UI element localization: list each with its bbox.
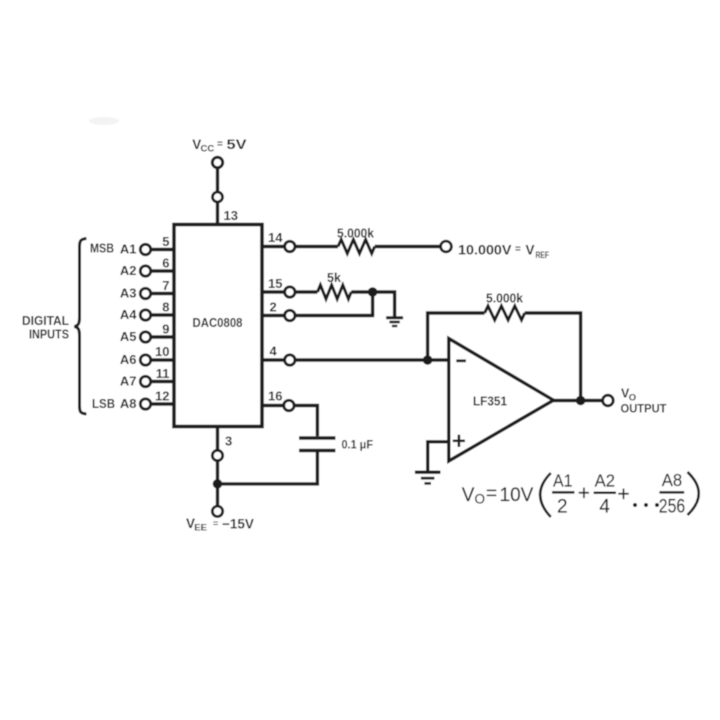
op-amp label LF351 bbox=[473, 394, 507, 409]
svg-text:MSB: MSB bbox=[90, 242, 114, 256]
label VEE = -15V bbox=[186, 516, 254, 534]
svg-text:10.000V: 10.000V bbox=[458, 243, 512, 258]
svg-text:REF: REF bbox=[536, 250, 550, 261]
wire junction down to pin 2 wire bbox=[371, 292, 374, 316]
svg-text:2: 2 bbox=[270, 300, 277, 315]
ground G2 bbox=[415, 472, 441, 483]
svg-text:DIGITAL: DIGITAL bbox=[22, 314, 69, 328]
svg-text:A8: A8 bbox=[662, 470, 682, 490]
faint scan smudge bbox=[89, 117, 119, 125]
wire junction to ground stub bbox=[373, 292, 395, 317]
svg-text:11: 11 bbox=[156, 366, 170, 381]
via circle on VCC wire bbox=[213, 192, 223, 202]
svg-text:A7: A7 bbox=[120, 374, 137, 389]
wire junction to VEE terminal bbox=[216, 484, 219, 506]
resistor R3 5.000k feedback bbox=[485, 292, 525, 321]
svg-text:A1: A1 bbox=[553, 471, 573, 491]
wire via to VEE junction bbox=[216, 461, 219, 484]
svg-text:10: 10 bbox=[155, 344, 169, 359]
input A7 (pin 11) bbox=[120, 366, 174, 389]
wire R2 to junction bbox=[351, 290, 372, 293]
svg-text:A4: A4 bbox=[120, 307, 137, 322]
input A6 (pin 10) bbox=[120, 344, 174, 367]
svg-text:O: O bbox=[629, 393, 636, 404]
svg-text:CC: CC bbox=[201, 144, 215, 155]
label OUTPUT bbox=[621, 404, 667, 416]
non-inverting input ground wire bbox=[428, 442, 449, 471]
svg-text:5V: 5V bbox=[227, 137, 247, 152]
svg-text:A5: A5 bbox=[120, 329, 137, 344]
svg-text:V: V bbox=[462, 485, 475, 506]
label VO bbox=[621, 387, 636, 404]
input A2 (pin 6) bbox=[120, 256, 174, 279]
resistor R1 5.000k bbox=[337, 227, 375, 254]
svg-text:15: 15 bbox=[268, 276, 282, 291]
svg-text:INPUTS: INPUTS bbox=[29, 328, 69, 342]
svg-text:DAC0808: DAC0808 bbox=[193, 315, 243, 330]
pin 16 lead bbox=[262, 389, 317, 437]
wire capacitor bottom to VEE junction bbox=[218, 451, 318, 484]
capacitor C1 plates bbox=[299, 438, 336, 451]
svg-text:3: 3 bbox=[225, 434, 232, 449]
pin 15 lead bbox=[262, 276, 318, 297]
svg-text:7: 7 bbox=[162, 278, 169, 293]
junction node pin15/pin2/ground bbox=[368, 287, 378, 297]
pin 4 lead bbox=[262, 344, 428, 366]
feedback wire to output bbox=[525, 313, 581, 401]
svg-text:2: 2 bbox=[557, 497, 568, 518]
svg-text:4: 4 bbox=[599, 497, 610, 518]
svg-text:A1: A1 bbox=[120, 242, 137, 257]
input A3 (pin 7) bbox=[120, 278, 174, 301]
svg-text:9: 9 bbox=[162, 322, 169, 337]
terminal VCC bbox=[212, 157, 222, 167]
svg-text:5.000k: 5.000k bbox=[337, 227, 374, 241]
svg-text:V: V bbox=[526, 243, 535, 258]
svg-text:+: + bbox=[578, 482, 590, 505]
VEE junction node bbox=[213, 479, 223, 489]
svg-text:14: 14 bbox=[268, 230, 283, 245]
op-amp minus input symbol bbox=[456, 359, 466, 362]
svg-text:8: 8 bbox=[162, 300, 169, 315]
svg-text:EE: EE bbox=[194, 523, 207, 534]
wire op-amp output bbox=[554, 399, 603, 402]
svg-text:=: = bbox=[217, 139, 223, 150]
svg-text:10V: 10V bbox=[500, 485, 534, 506]
svg-text:+: + bbox=[617, 483, 629, 506]
input A5 (pin 9) bbox=[120, 322, 174, 345]
label LSB bbox=[92, 397, 115, 411]
svg-text:16: 16 bbox=[268, 389, 282, 404]
label DIGITAL INPUTS bbox=[22, 314, 69, 342]
op-amp plus input symbol bbox=[453, 435, 465, 447]
svg-text:LF351: LF351 bbox=[473, 394, 507, 409]
svg-text:12: 12 bbox=[155, 389, 169, 404]
output junction node bbox=[576, 396, 586, 406]
power label VCC = 5V bbox=[192, 137, 246, 155]
input A1 (pin 5) bbox=[120, 234, 174, 257]
brace for digital inputs bbox=[75, 239, 87, 415]
svg-text:A8: A8 bbox=[120, 396, 137, 411]
label 10.000V = VREF bbox=[458, 243, 549, 261]
terminal VEE bbox=[212, 506, 222, 516]
feedback riser wire bbox=[428, 313, 485, 360]
svg-text:256: 256 bbox=[659, 497, 685, 518]
pin 2 lead bbox=[262, 300, 374, 321]
IC U1 label DAC0808 bbox=[193, 315, 243, 330]
svg-text:O: O bbox=[475, 492, 486, 507]
svg-text:5: 5 bbox=[162, 234, 169, 249]
label 0.1 uF bbox=[342, 438, 374, 452]
svg-text:5.000k: 5.000k bbox=[486, 292, 523, 306]
IC U1 DAC0808 box bbox=[174, 225, 262, 427]
pin 13 label bbox=[224, 208, 238, 223]
wire via to pin 13 bbox=[216, 202, 219, 224]
input A8 (pin 12) bbox=[120, 389, 174, 412]
terminal VO output bbox=[603, 395, 614, 406]
svg-text:4: 4 bbox=[270, 344, 278, 359]
op-amp U2 triangle bbox=[449, 339, 554, 462]
wire R1 to VREF terminal bbox=[375, 245, 441, 248]
wire node to inverting input bbox=[428, 358, 449, 361]
pin 3 lead bbox=[218, 427, 233, 451]
resistor R2 5k bbox=[318, 271, 352, 299]
input A4 (pin 8) bbox=[120, 300, 174, 323]
svg-text:LSB: LSB bbox=[92, 397, 115, 411]
svg-text:13: 13 bbox=[224, 208, 238, 223]
terminal VREF bbox=[441, 241, 452, 252]
label MSB bbox=[90, 242, 114, 256]
svg-text:=: = bbox=[213, 518, 218, 528]
wire VCC terminal to via bbox=[216, 168, 219, 192]
formula VO = 10V (A1/2 + A2/4 + ... A8/256) bbox=[462, 470, 699, 518]
svg-text:=: = bbox=[486, 484, 497, 505]
svg-text:=: = bbox=[515, 244, 521, 255]
via circle below pin 3 bbox=[212, 450, 222, 460]
pin 14 lead bbox=[262, 230, 338, 252]
svg-text:A2: A2 bbox=[595, 471, 615, 491]
svg-text:0.1 μF: 0.1 μF bbox=[342, 438, 374, 452]
summing node junction bbox=[423, 355, 433, 365]
svg-text:OUTPUT: OUTPUT bbox=[621, 404, 667, 416]
svg-text:5k: 5k bbox=[327, 271, 341, 285]
ground G1 bbox=[386, 318, 403, 326]
svg-text:A3: A3 bbox=[120, 286, 137, 301]
svg-text:A6: A6 bbox=[120, 352, 137, 367]
svg-text:−15V: −15V bbox=[222, 517, 254, 532]
svg-text:A2: A2 bbox=[120, 263, 137, 278]
svg-text:6: 6 bbox=[162, 256, 169, 271]
